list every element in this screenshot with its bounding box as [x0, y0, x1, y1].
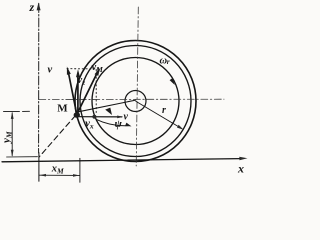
dashed line M to origin corner — [39, 116, 76, 158]
x axis ground line — [2, 159, 241, 162]
wheel second circle (rim inside) — [80, 46, 191, 157]
junction dot on horizontal vector — [92, 115, 96, 119]
point M dot — [74, 112, 80, 118]
svg-text:z: z — [29, 0, 35, 14]
yM bottom tick — [7, 156, 38, 158]
svg-text:v: v — [48, 64, 53, 75]
xM left tick — [38, 153, 40, 182]
horizontal center line — [39, 98, 224, 100]
xM right tick — [79, 158, 81, 182]
svg-text:M: M — [57, 102, 68, 114]
dotted construction vertical — [95, 70, 97, 115]
svg-text:r: r — [167, 57, 170, 66]
radius r line with arrow — [136, 101, 182, 128]
wheel inner circle — [92, 58, 179, 145]
dotted construction horizontal — [67, 68, 100, 70]
svg-text:x: x — [237, 162, 244, 176]
vector vz (up from M) — [77, 74, 79, 115]
yM dimension line — [11, 113, 13, 156]
line M to wheel center — [78, 100, 136, 112]
omega rotation arrowhead on inner circle — [170, 78, 175, 85]
x axis arrowhead — [239, 157, 247, 161]
yM top tick — [4, 110, 30, 112]
vector vM (up-right from M) — [77, 73, 97, 114]
xM dimension line — [40, 174, 80, 176]
psi angle arc — [96, 119, 128, 125]
svg-text:ψ: ψ — [115, 118, 123, 130]
hub circle — [125, 91, 146, 112]
wheel outer circle (rim outside) — [75, 41, 196, 162]
svg-text:r: r — [162, 105, 166, 116]
z axis arrowhead — [37, 2, 41, 10]
svg-text:v: v — [124, 112, 129, 123]
z axis — [38, 4, 40, 154]
horizontal vector v from M — [79, 116, 122, 118]
bold arrowhead on MC line — [105, 108, 112, 115]
vertical center line — [136, 7, 138, 166]
vector v (up-left from M) — [68, 72, 77, 115]
